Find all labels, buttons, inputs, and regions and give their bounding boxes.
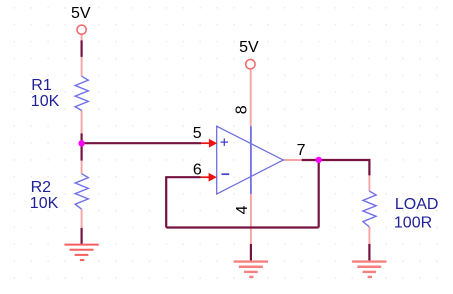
svg-text:4: 4 bbox=[234, 205, 251, 214]
svg-text:5: 5 bbox=[193, 125, 202, 142]
svg-text:10K: 10K bbox=[31, 93, 60, 110]
svg-text:100R: 100R bbox=[394, 215, 432, 232]
svg-text:8: 8 bbox=[234, 105, 251, 114]
svg-text:10K: 10K bbox=[30, 195, 59, 212]
svg-text:5V: 5V bbox=[71, 5, 91, 22]
svg-text:LOAD: LOAD bbox=[395, 196, 439, 213]
svg-text:5V: 5V bbox=[239, 39, 259, 56]
svg-text:R2: R2 bbox=[31, 179, 52, 196]
svg-text:6: 6 bbox=[193, 161, 202, 178]
svg-text:7: 7 bbox=[297, 142, 306, 159]
svg-text:R1: R1 bbox=[31, 77, 52, 94]
